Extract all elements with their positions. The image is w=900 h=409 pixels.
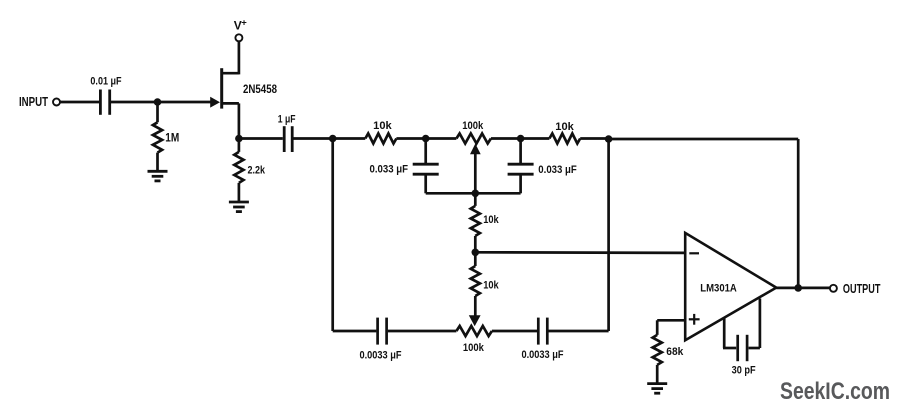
capacitor C6 0.0033 uF (538, 318, 547, 345)
wire feedback vertical (797, 139, 800, 288)
wire node E to R5 (521, 137, 550, 140)
svg-text:10k: 10k (555, 121, 574, 133)
wire node H to inverting input (475, 251, 685, 254)
potentiometer R4 100k element (456, 134, 491, 144)
node A junction (154, 98, 162, 106)
svg-text:1 μF: 1 μF (278, 113, 296, 125)
capacitor C2 1 uF (284, 126, 292, 152)
wire non-inverting input (657, 319, 685, 322)
capacitor C3 0.033 uF (424, 139, 427, 164)
wire R5 to node F (580, 137, 608, 140)
wire R3 to node D (396, 137, 425, 140)
wire C1 to node A (111, 101, 213, 104)
wire output (776, 287, 830, 290)
wire node F to feedback corner (609, 138, 799, 141)
svg-text:100k: 100k (462, 120, 484, 132)
wire twin-T middle (426, 192, 521, 195)
capacitor C1 0.01 uF (100, 90, 109, 115)
resistor R9 68k (653, 335, 662, 365)
node G wiper junction (472, 190, 480, 198)
svg-text:100k: 100k (463, 342, 485, 354)
wire bottom rail left (333, 330, 377, 333)
node F junction (605, 135, 613, 143)
resistor R3 10k (365, 134, 396, 144)
svg-text:+: + (241, 17, 247, 28)
potentiometer R8 wiper arrow down (469, 315, 481, 326)
resistor R2 2.2k (234, 152, 243, 183)
transistor Q1 channel bar (220, 68, 223, 108)
ground for R9 (647, 384, 667, 394)
svg-text:0.0033 μF: 0.0033 μF (360, 349, 402, 361)
op-amp non-inverting input mark (689, 318, 700, 320)
svg-text:2N5458: 2N5458 (243, 84, 277, 96)
terminal OUTPUT (830, 285, 837, 292)
svg-text:68k: 68k (666, 346, 684, 358)
node E junction (517, 135, 525, 143)
wire node D to R4 (426, 137, 457, 140)
svg-text:0.033 μF: 0.033 μF (538, 164, 577, 176)
svg-text:10k: 10k (483, 214, 499, 226)
transistor Q1 2N5458 gate arrow (210, 97, 220, 108)
svg-text:1M: 1M (165, 132, 179, 144)
svg-text:2.2k: 2.2k (248, 165, 266, 177)
node J output junction (794, 284, 802, 292)
resistor R7 10k (471, 266, 480, 296)
resistor R6 10k (471, 206, 480, 236)
svg-text:10k: 10k (373, 120, 392, 132)
op-amp inverting input mark (689, 252, 699, 254)
svg-text:OUTPUT: OUTPUT (843, 281, 881, 296)
node H junction (472, 249, 480, 257)
svg-text:0.01 μF: 0.01 μF (90, 75, 121, 87)
transistor Q1 source lead (221, 102, 239, 105)
wire left rail (331, 139, 334, 332)
potentiometer R4 wiper arrow up (470, 144, 481, 155)
wire C5 to R8 (388, 330, 457, 333)
wire node C to R3 (333, 137, 366, 140)
resistor R1 1M (153, 122, 162, 152)
capacitor C4 0.033 uF (519, 139, 522, 164)
ground for R2 (229, 202, 249, 212)
capacitor C5 0.0033 uF (378, 318, 387, 345)
wire right rail (607, 139, 610, 331)
wire node B to C2 (239, 137, 283, 140)
svg-text:LM301A: LM301A (700, 282, 737, 294)
wire C6 to right rail (549, 330, 609, 333)
wire R4 to node E (491, 137, 521, 140)
svg-text:SeekIC.com: SeekIC.com (780, 378, 890, 405)
terminal V+ supply (235, 34, 242, 41)
resistor R5 10k (549, 134, 580, 144)
terminal INPUT (53, 99, 60, 106)
ground for R1 (148, 171, 168, 181)
svg-text:30 pF: 30 pF (732, 365, 756, 377)
potentiometer R8 100k element (456, 326, 492, 336)
svg-text:10k: 10k (483, 280, 499, 292)
transistor Q1 drain lead (221, 72, 239, 75)
wire R8 to C6 (492, 330, 537, 333)
svg-text:0.0033 μF: 0.0033 μF (522, 349, 564, 361)
wire C2 to node C (293, 137, 332, 140)
op-amp U1 LM301A (685, 233, 776, 340)
node C junction (329, 135, 337, 143)
svg-text:INPUT: INPUT (19, 94, 48, 109)
node B source junction (235, 135, 243, 143)
wire input to C1 (61, 101, 100, 104)
node D junction (422, 135, 430, 143)
capacitor C7 30 pF (723, 317, 726, 348)
svg-text:0.033 μF: 0.033 μF (370, 164, 409, 176)
